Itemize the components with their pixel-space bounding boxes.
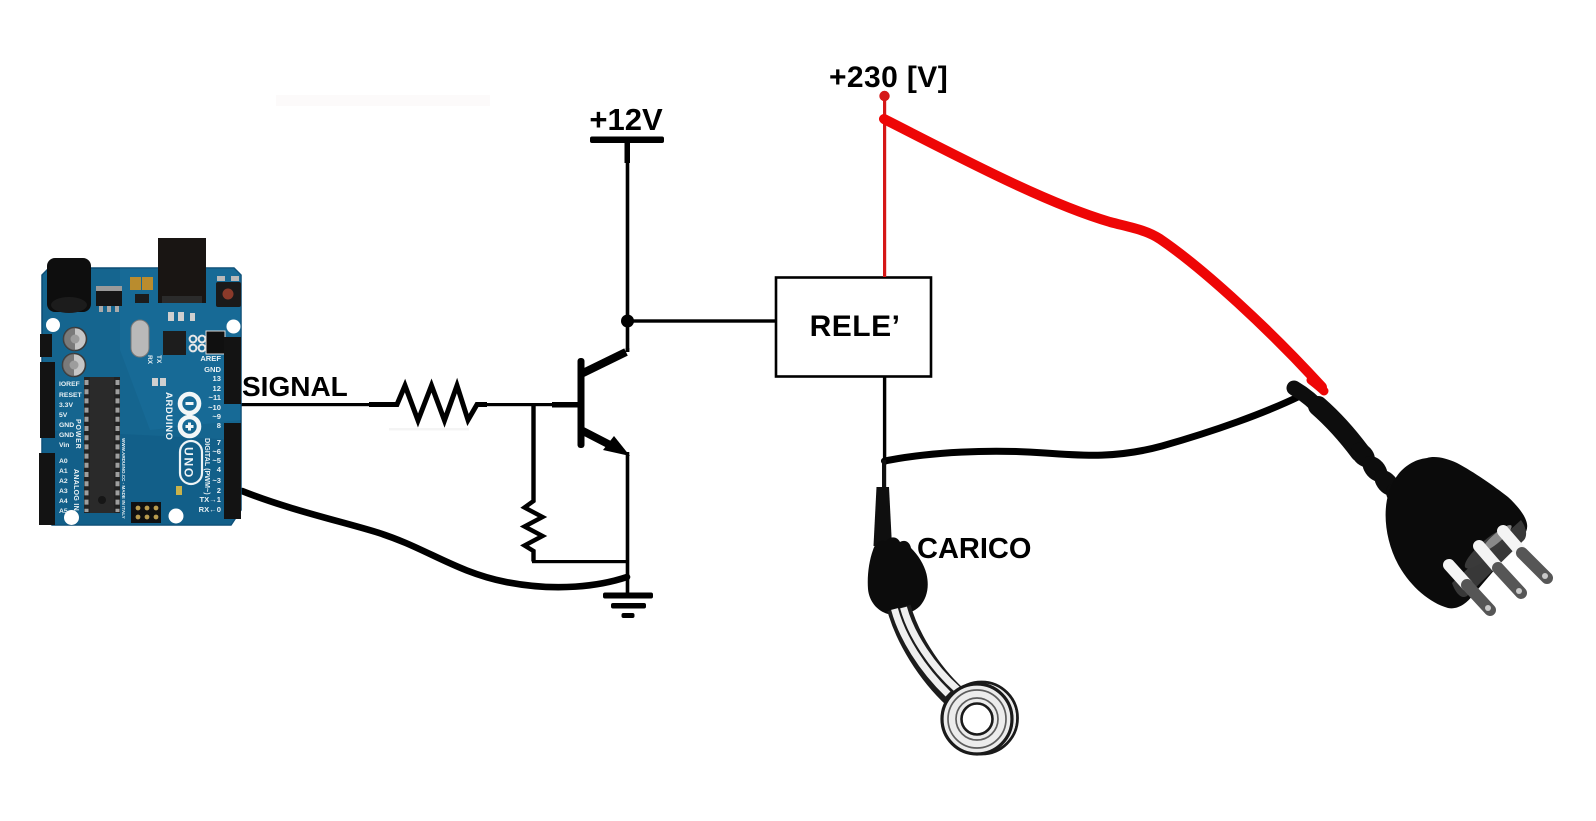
Arduino voltage regulator: [96, 286, 122, 292]
label CARICO: [917, 533, 1031, 565]
svg-text:SIGNAL: SIGNAL: [242, 371, 348, 402]
label +230 [V]: [829, 61, 948, 94]
plug pin 1: [1449, 565, 1491, 611]
svg-text:12: 12: [213, 384, 221, 393]
Arduino small SMD parts: [135, 294, 195, 495]
wire: Arduino pin to resistor R1: [240, 403, 370, 406]
plug strain relief: [1346, 438, 1380, 472]
plug cable: [1294, 388, 1324, 413]
svg-text:RESET: RESET: [59, 392, 83, 399]
Arduino ATmega16U2: [163, 331, 186, 355]
label +12V: [589, 102, 663, 137]
svg-text:2: 2: [217, 486, 221, 495]
faint artifact under resistor: [389, 428, 469, 430]
Arduino ICSP2 header: [131, 502, 161, 523]
svg-text:POWER: POWER: [74, 419, 81, 449]
Arduino logo infinity rings: [180, 394, 199, 413]
Arduino mounting holes: [46, 318, 60, 332]
svg-text:TX: TX: [155, 355, 162, 364]
svg-text:Vin: Vin: [59, 442, 69, 449]
svg-text:~10: ~10: [208, 403, 221, 412]
Arduino JP2 pads: [190, 336, 197, 343]
svg-text:A0: A0: [59, 458, 68, 465]
svg-text:A2: A2: [59, 478, 68, 485]
svg-text:~6: ~6: [212, 447, 221, 456]
wire: Arduino GND to circuit ground (black lead): [242, 491, 627, 587]
Arduino electrolytic capacitor C2: [63, 354, 86, 377]
svg-text:+230 [V]: +230 [V]: [829, 61, 948, 94]
node +230V (red terminal dot): [879, 91, 889, 101]
power +12V supply bar: [590, 137, 664, 164]
svg-text:WWW.ARDUINO.CC - MADE IN ITALY: WWW.ARDUINO.CC - MADE IN ITALY: [121, 438, 126, 519]
Arduino power jack: [47, 258, 91, 312]
wire: +12V to collector node: [626, 160, 630, 352]
svg-text:IOREF: IOREF: [59, 381, 80, 388]
wire: resistor R1 to base of Q1: [486, 403, 554, 406]
mains plug: [1294, 380, 1548, 611]
svg-text:A3: A3: [59, 488, 68, 495]
svg-text:ANALOG IN: ANALOG IN: [72, 469, 79, 511]
Arduino PCB: [42, 268, 241, 525]
wire: red lead end overlay on cable: [1311, 380, 1324, 391]
wire: load node to plug (black): [885, 396, 1301, 461]
Arduino ICSP1 header: [206, 331, 225, 354]
svg-text:AREF: AREF: [200, 354, 221, 363]
plug pin 2: [1479, 546, 1522, 594]
Arduino USB connector: [158, 238, 206, 303]
svg-text:GND: GND: [204, 365, 221, 374]
svg-text:+12V: +12V: [589, 102, 663, 137]
Arduino UNO badge: [180, 441, 202, 484]
plug body: [1386, 457, 1528, 608]
junction: collector node: [621, 315, 634, 328]
plug pin 3: [1503, 531, 1548, 579]
svg-text:A5: A5: [59, 508, 68, 515]
svg-text:8: 8: [217, 421, 221, 430]
wire: pull-down bottom to emitter: [532, 560, 628, 563]
Arduino reset button: [216, 282, 241, 307]
relay RELE' box: [776, 278, 931, 377]
ground: [603, 593, 653, 619]
svg-text:RX←0: RX←0: [199, 505, 221, 514]
wire: emitter to ground: [626, 452, 630, 594]
Arduino tantalum caps: [130, 277, 141, 290]
heater coil outer extra turn: [946, 682, 1018, 754]
svg-text:TX→1: TX→1: [199, 495, 221, 504]
heater coil stem: [899, 608, 955, 697]
svg-text:7: 7: [217, 438, 221, 447]
Arduino left female headers: [40, 362, 55, 438]
Arduino crystal: [131, 320, 149, 357]
svg-text:GND: GND: [59, 422, 74, 429]
svg-text:5V: 5V: [59, 412, 68, 419]
Arduino silkscreen left labels: [59, 381, 83, 515]
svg-text:A4: A4: [59, 498, 68, 505]
svg-text:RELE’: RELE’: [810, 310, 901, 343]
Arduino Uno board (module): [39, 238, 241, 525]
wire: collector diagonal to node: [626, 348, 630, 352]
transistor Q1 (NPN): [552, 352, 630, 456]
Arduino electrolytic capacitor C1: [64, 328, 87, 351]
svg-text:~3: ~3: [212, 476, 221, 485]
heater coil loop: [952, 694, 1002, 744]
svg-text:13: 13: [213, 374, 221, 383]
svg-text:~5: ~5: [212, 456, 221, 465]
svg-text:~11: ~11: [209, 393, 222, 402]
svg-text:GND: GND: [59, 432, 74, 439]
svg-text:UNO: UNO: [182, 447, 196, 479]
wire: collector node to relay: [627, 319, 775, 322]
svg-text:A1: A1: [59, 468, 68, 475]
wire: mains live to plug (thick red): [884, 119, 1322, 387]
Arduino ATmega328 DIP chip: [84, 377, 120, 513]
svg-text:ARDUINO: ARDUINO: [163, 392, 174, 441]
svg-text:3.3V: 3.3V: [59, 402, 73, 409]
load CARICO (immersion heater): [868, 460, 1018, 754]
svg-text:DIGITAL (PWM~): DIGITAL (PWM~): [203, 438, 212, 495]
resistor R1 (base resistor): [369, 386, 487, 421]
svg-text:RX: RX: [146, 355, 153, 365]
node SIGNAL label: [242, 371, 348, 402]
resistor R2 (base pull-down): [525, 406, 543, 562]
wire: relay to load (black): [883, 377, 886, 465]
faint erased-line artifact: [276, 95, 490, 106]
plug face shading: [1452, 520, 1526, 597]
Arduino right female headers: [224, 337, 241, 404]
svg-text:CARICO: CARICO: [917, 533, 1031, 565]
Arduino silkscreen right labels: [199, 354, 222, 514]
svg-text:~9: ~9: [212, 412, 221, 421]
wire: +230V node to relay (thin red): [883, 96, 886, 277]
